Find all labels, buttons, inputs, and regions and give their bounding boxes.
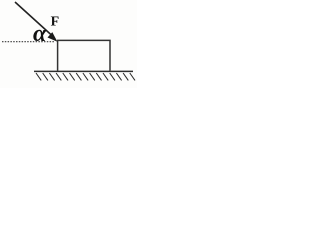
force arrow F shaft <box>15 2 53 36</box>
force arrow F head <box>48 32 58 42</box>
svg-text:α: α <box>33 21 47 47</box>
svg-text:F: F <box>51 15 60 30</box>
block <box>58 40 110 70</box>
ground line <box>34 70 133 72</box>
ground hatching <box>36 73 135 80</box>
dotted horizontal reference line <box>2 41 54 43</box>
background <box>0 0 137 88</box>
